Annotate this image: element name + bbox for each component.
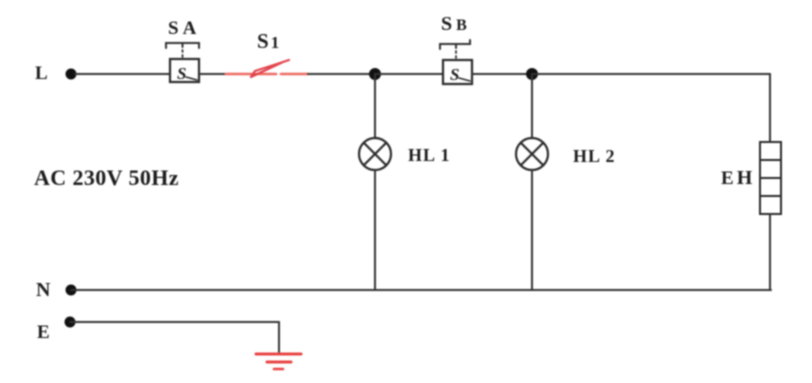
svg-text:EH: EH	[721, 167, 755, 189]
svg-text:HL 1: HL 1	[408, 145, 451, 165]
node E	[65, 317, 76, 328]
heater EH body	[760, 142, 781, 214]
lamp HL1	[359, 138, 391, 170]
wire node A to SB	[375, 73, 443, 75]
switch S1 red lead right	[281, 73, 308, 76]
node A junction	[369, 68, 381, 80]
ground	[256, 354, 301, 369]
wire SB to node B	[472, 73, 532, 75]
svg-text:S: S	[450, 65, 459, 84]
svg-text:AC 230V 50Hz: AC 230V 50Hz	[34, 165, 179, 190]
wire E horizontal	[70, 321, 279, 323]
switch S1 red lead left	[226, 73, 276, 76]
wire L to SA	[75, 73, 170, 75]
switch SA operator bracket	[166, 43, 199, 59]
svg-text:SA: SA	[168, 18, 200, 39]
switch SB operator bracket	[440, 40, 470, 60]
wire S1 to node A	[308, 73, 375, 75]
lamp HL2	[516, 138, 548, 170]
wire right corner down to EH	[769, 74, 771, 142]
svg-text:S1: S1	[257, 29, 281, 53]
wire E down to ground	[278, 322, 280, 352]
wire N line	[71, 289, 771, 291]
svg-text:SB: SB	[441, 13, 471, 35]
svg-text:S: S	[177, 64, 186, 83]
switch SB box	[443, 60, 472, 84]
switch SA box	[170, 59, 199, 82]
wire EH to N line	[769, 214, 771, 290]
node B junction	[526, 68, 538, 80]
node L	[66, 69, 77, 80]
svg-text:L: L	[35, 63, 48, 84]
wire node A down to lamp HL1	[374, 74, 376, 138]
wire lamp HL2 to N line	[531, 170, 533, 290]
wire lamp HL1 to N line	[374, 170, 376, 290]
wire node B to top right corner	[532, 73, 770, 75]
svg-text:HL 2: HL 2	[573, 146, 616, 166]
svg-text:N: N	[36, 279, 51, 301]
svg-text:E: E	[37, 322, 50, 343]
wire node B down to lamp HL2	[531, 74, 533, 138]
switch S1 blade	[251, 60, 289, 77]
node N	[66, 285, 77, 296]
wire SA to S1	[199, 73, 227, 75]
